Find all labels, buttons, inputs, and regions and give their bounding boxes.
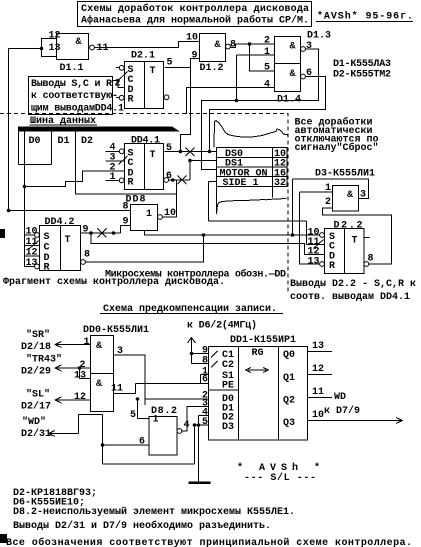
svg-text:к D7/9: к D7/9 — [324, 405, 360, 417]
svg-text:&: & — [96, 379, 102, 390]
svg-text:DD4.2: DD4.2 — [45, 217, 75, 228]
svg-text:T: T — [352, 236, 358, 247]
svg-text:D0: D0 — [29, 136, 41, 147]
svg-text:1: 1 — [146, 209, 152, 220]
svg-text:D2/31: D2/31 — [21, 428, 51, 440]
svg-text:R: R — [329, 261, 335, 272]
svg-text:S: S — [44, 232, 50, 243]
svg-text:9: 9 — [192, 51, 198, 62]
svg-text:Схемы доработок контроллера ди: Схемы доработок контроллера дисковода — [81, 2, 309, 15]
svg-text:"SL": "SL" — [26, 389, 50, 401]
svg-text:к D6/2(4МГц): к D6/2(4МГц) — [187, 320, 257, 332]
svg-text:D2.1: D2.1 — [131, 51, 155, 62]
svg-text:8: 8 — [84, 250, 90, 261]
svg-text:12: 12 — [74, 392, 86, 403]
svg-text:5: 5 — [264, 63, 270, 74]
svg-text:6: 6 — [306, 68, 312, 79]
svg-text:5: 5 — [130, 410, 136, 421]
svg-text:R: R — [128, 178, 134, 189]
svg-text:D3: D3 — [222, 422, 234, 433]
svg-text:1: 1 — [110, 172, 116, 183]
svg-text:&: & — [76, 37, 82, 48]
svg-text:2: 2 — [325, 197, 331, 208]
svg-text:6: 6 — [139, 437, 145, 448]
svg-text:11: 11 — [312, 387, 324, 398]
svg-text:Выводы D2/31 и D7/9 необходимо: Выводы D2/31 и D7/9 необходимо разъедини… — [13, 519, 271, 532]
svg-text:D2/18: D2/18 — [21, 341, 51, 353]
svg-text:6: 6 — [202, 375, 208, 386]
svg-text:--- S/L ---: --- S/L --- — [244, 472, 316, 484]
svg-text:D8.2-неиспользуемый элемент ми: D8.2-неиспользуемый элемент микросхемы К… — [13, 506, 295, 518]
svg-text:SIDE 1: SIDE 1 — [223, 178, 259, 189]
svg-text:13: 13 — [26, 258, 38, 269]
svg-text:12: 12 — [312, 364, 324, 375]
svg-text:T: T — [150, 66, 156, 77]
svg-text:5: 5 — [202, 417, 208, 428]
svg-text:12: 12 — [49, 31, 61, 42]
svg-text:DD4.1: DD4.1 — [131, 136, 160, 147]
svg-text:&: & — [290, 69, 296, 80]
svg-text:C: C — [128, 158, 134, 169]
svg-text:1: 1 — [84, 337, 90, 348]
svg-text:D3-К555ЛИ1: D3-К555ЛИ1 — [315, 169, 375, 180]
svg-text:D1-К555ЛА3: D1-К555ЛА3 — [333, 59, 391, 70]
svg-text:DD0-К555ЛИ1: DD0-К555ЛИ1 — [83, 325, 149, 336]
svg-text:D2-К555ТМ2: D2-К555ТМ2 — [333, 70, 391, 81]
svg-text:*AVSh* 95-96г.: *AVSh* 95-96г. — [317, 11, 413, 23]
svg-text:DD1-К155ИР1: DD1-К155ИР1 — [230, 335, 296, 346]
svg-text:Все обозначения соответствуют: Все обозначения соответствуют принципиал… — [6, 536, 412, 547]
svg-text:PE: PE — [222, 381, 234, 392]
svg-text:&: & — [96, 341, 102, 352]
svg-text:R: R — [44, 263, 50, 274]
svg-text:10: 10 — [26, 227, 38, 238]
svg-text:Q1: Q1 — [283, 373, 295, 384]
svg-text:"SR": "SR" — [26, 329, 50, 341]
svg-text:"TR43": "TR43" — [26, 354, 62, 366]
svg-text:Фрагмент схемы контроллера дис: Фрагмент схемы контроллера дисковода. — [3, 277, 225, 288]
svg-text:13: 13 — [74, 371, 86, 382]
svg-text:к соответствую-: к соответствую- — [31, 91, 118, 102]
svg-text:2: 2 — [264, 36, 270, 47]
svg-text:5: 5 — [167, 58, 173, 69]
svg-text:C: C — [44, 243, 50, 254]
svg-text:8: 8 — [202, 356, 208, 367]
svg-text:Выводы D2.2 - S,C,R к: Выводы D2.2 - S,C,R к — [290, 279, 416, 290]
svg-text:R: R — [128, 95, 134, 106]
svg-text:Афанасьева для нормальной рабо: Афанасьева для нормальной работы CP/M. — [81, 14, 309, 27]
svg-text:Выводы S,C и R: Выводы S,C и R — [31, 79, 112, 90]
svg-text:D1.2: D1.2 — [200, 63, 224, 74]
svg-text:Q3: Q3 — [283, 418, 295, 429]
svg-text:Q2: Q2 — [283, 396, 295, 407]
svg-text:D1.3: D1.3 — [307, 31, 331, 42]
svg-text:11: 11 — [111, 384, 123, 395]
svg-text:D2/29: D2/29 — [21, 366, 51, 378]
svg-text:D1: D1 — [58, 136, 70, 147]
svg-text:сигналу"Сброс": сигналу"Сброс" — [295, 141, 379, 154]
svg-text:D2: D2 — [81, 136, 93, 147]
svg-text:D2/17: D2/17 — [21, 401, 51, 413]
svg-text:&: & — [290, 42, 296, 53]
svg-text:T: T — [65, 235, 71, 246]
svg-text:3: 3 — [306, 41, 312, 52]
svg-text:10: 10 — [186, 33, 198, 44]
svg-text:щим выводамDD4.1: щим выводамDD4.1 — [31, 104, 124, 115]
svg-text:соотв. выводам DD4.1: соотв. выводам DD4.1 — [290, 292, 410, 303]
svg-text:1: 1 — [153, 415, 159, 426]
svg-text:RG: RG — [252, 348, 264, 359]
svg-text:13: 13 — [49, 43, 61, 54]
svg-text:9: 9 — [83, 225, 89, 236]
svg-text:5: 5 — [166, 143, 172, 154]
svg-text:1: 1 — [264, 47, 270, 58]
svg-text:11: 11 — [97, 43, 109, 54]
svg-text:C2: C2 — [222, 360, 234, 371]
svg-text:13: 13 — [312, 341, 324, 352]
svg-text:T: T — [150, 150, 156, 161]
svg-text:Q0: Q0 — [283, 350, 295, 361]
svg-text:32: 32 — [274, 178, 286, 189]
svg-text:&: & — [215, 40, 221, 51]
svg-text:&: & — [347, 190, 353, 201]
svg-text:12: 12 — [26, 248, 38, 259]
svg-text:WD: WD — [334, 392, 346, 403]
svg-text:4: 4 — [264, 80, 270, 91]
svg-text:8: 8 — [368, 254, 374, 265]
svg-text:13: 13 — [308, 257, 320, 268]
svg-text:"WD": "WD" — [22, 416, 46, 428]
svg-text:10: 10 — [312, 410, 324, 421]
svg-text:D2.2: D2.2 — [334, 221, 363, 232]
svg-text:D1.1: D1.1 — [60, 63, 84, 74]
svg-text:2: 2 — [115, 79, 121, 90]
